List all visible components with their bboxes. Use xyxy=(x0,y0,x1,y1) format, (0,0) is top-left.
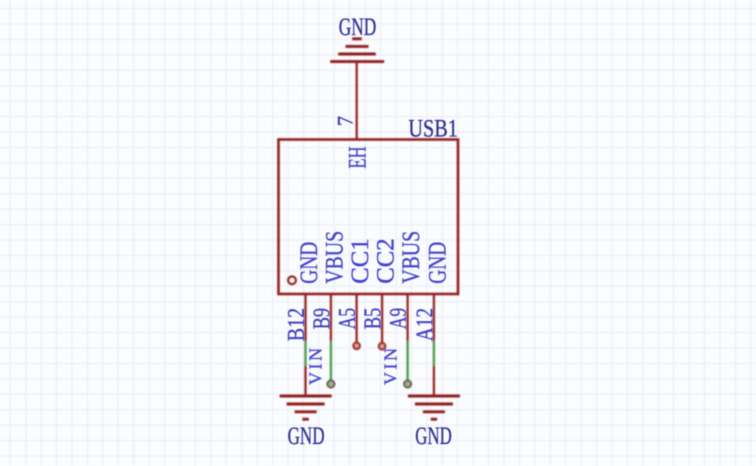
svg-text:USB1: USB1 xyxy=(408,116,458,143)
pin B5 stub xyxy=(381,293,383,343)
svg-text:A5: A5 xyxy=(335,308,361,329)
wire GND net A12 (green) xyxy=(433,341,435,366)
ground stub left xyxy=(304,366,306,396)
ground symbol (bottom left) xyxy=(280,396,332,419)
wire end pad A9 xyxy=(404,380,411,387)
wire pin7 to ground xyxy=(356,62,358,140)
svg-text:VBUS: VBUS xyxy=(322,231,349,284)
svg-text:VIN: VIN xyxy=(305,348,325,385)
svg-text:VIN: VIN xyxy=(380,348,400,385)
svg-text:CC2: CC2 xyxy=(373,238,400,284)
svg-text:A12: A12 xyxy=(412,308,438,341)
wire GND net B12 (green) xyxy=(304,341,306,366)
svg-text:7: 7 xyxy=(332,116,357,126)
pin B9 stub xyxy=(330,293,332,342)
ground symbol (top, inverted) xyxy=(330,39,384,62)
svg-text:GND: GND xyxy=(415,423,452,450)
svg-text:GND: GND xyxy=(339,14,377,41)
pin B12 stub xyxy=(304,293,306,342)
pin A5 stub xyxy=(356,293,358,343)
svg-text:CC1: CC1 xyxy=(347,238,374,284)
svg-text:GND: GND xyxy=(425,242,452,284)
wire VIN net A9 (green) xyxy=(406,341,408,381)
ground stub right xyxy=(433,366,435,396)
wire end pad B9 xyxy=(327,380,334,387)
svg-text:B12: B12 xyxy=(284,308,310,341)
ground symbol (bottom right) xyxy=(408,396,460,419)
svg-text:VBUS: VBUS xyxy=(398,231,425,284)
svg-text:A9: A9 xyxy=(386,308,412,329)
wire VIN net B9 (green) xyxy=(330,341,332,381)
symbol dot (pin1 mark) xyxy=(288,276,296,284)
pin A9 stub xyxy=(407,293,409,342)
svg-text:B9: B9 xyxy=(309,308,335,329)
svg-text:B5: B5 xyxy=(361,308,387,330)
svg-text:EH: EH xyxy=(344,147,371,169)
pin A12 stub xyxy=(433,293,435,342)
connector USB1 body xyxy=(279,140,459,295)
svg-text:GND: GND xyxy=(288,423,325,450)
svg-text:GND: GND xyxy=(296,242,323,284)
no-connect ring B5 xyxy=(379,343,386,350)
no-connect ring A5 xyxy=(353,343,360,350)
